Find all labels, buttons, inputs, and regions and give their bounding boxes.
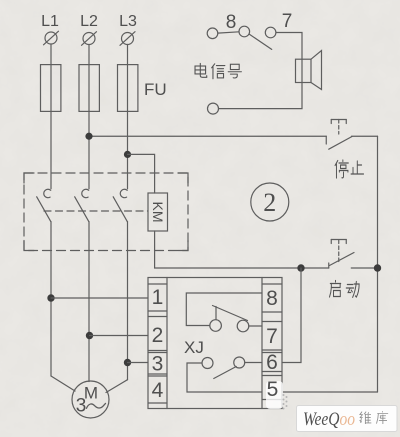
- start button actuator: [331, 240, 346, 263]
- wire L3 phase: [127, 45, 129, 189]
- svg-text:L2: L2: [80, 13, 98, 30]
- relay right column divider: [261, 278, 263, 409]
- svg-text:6: 6: [266, 351, 278, 374]
- node start left: [297, 264, 304, 271]
- speaker: [296, 51, 322, 90]
- wire contact to terminal 7: [249, 325, 262, 327]
- wire L3 to motor: [106, 380, 128, 393]
- XJ contact 8-7 blade: [213, 306, 248, 321]
- svg-text:XJ: XJ: [184, 338, 204, 357]
- terminal 2 cell: [148, 317, 167, 351]
- terminal 3 cell: [148, 353, 167, 376]
- label FU: [144, 80, 167, 99]
- watermark WeeQoo box: [297, 406, 398, 432]
- svg-text:7: 7: [282, 11, 293, 32]
- motor M: [72, 381, 109, 418]
- contact circle 7: [265, 27, 276, 38]
- XJ contact 8-7 fixed circle: [237, 320, 249, 332]
- mechanical linkage: [44, 210, 148, 212]
- svg-text:L1: L1: [41, 13, 59, 30]
- wire contact to terminal 6: [245, 362, 262, 364]
- svg-text:KM: KM: [150, 202, 166, 223]
- wire L1 to motor: [51, 376, 75, 391]
- svg-text:2: 2: [263, 188, 276, 217]
- node L2 to terminal 2: [86, 332, 93, 339]
- node start right: [374, 264, 381, 271]
- label XJ: [184, 338, 204, 357]
- stop button actuator: [331, 120, 346, 135]
- node L2 junction: [85, 133, 92, 140]
- terminal circle signal left bottom: [208, 103, 219, 114]
- svg-text:L3: L3: [119, 13, 137, 30]
- svg-text:8: 8: [266, 287, 278, 310]
- watermark 维库: [360, 411, 389, 424]
- wire L1 to terminal 1: [51, 297, 148, 299]
- svg-text:5: 5: [267, 378, 279, 401]
- terminal 4 cell: [148, 376, 167, 403]
- label circuit number 2: [251, 183, 289, 221]
- contactor dashed box: [24, 173, 188, 251]
- XJ contact 5-6 right circle: [234, 357, 245, 368]
- wire KM coil to start: [155, 231, 301, 268]
- wire L3 to terminal 3: [128, 362, 149, 364]
- wire terminal 5 to contact: [187, 363, 262, 392]
- wire terminal 5 to bus: [282, 391, 378, 393]
- switch blade 8-7: [249, 34, 272, 49]
- label KM: [150, 202, 166, 223]
- terminal L1 circle: [44, 31, 59, 45]
- wire L3 to KM coil: [128, 154, 155, 193]
- terminal L2 circle: [82, 32, 97, 46]
- wire terminal 8 to contact: [186, 293, 262, 326]
- terminal 7 cell: [262, 322, 282, 351]
- label L1: [41, 13, 59, 30]
- svg-text:1: 1: [152, 286, 164, 309]
- relay XJ outer box: [148, 278, 282, 409]
- terminal L3 circle: [120, 32, 135, 46]
- wire L2 to terminal 2: [90, 335, 149, 337]
- wire 7 to speaker: [276, 33, 302, 60]
- node L3 to terminal 3: [124, 359, 131, 366]
- contact circle 8: [239, 26, 250, 37]
- relay left column divider: [166, 278, 168, 409]
- terminal 1 cell: [148, 284, 167, 311]
- KM main contact 2: [75, 189, 89, 221]
- svg-text:3: 3: [76, 396, 87, 417]
- wire right bus: [377, 136, 379, 392]
- wire L2 lower: [88, 222, 90, 382]
- label L3: [119, 13, 137, 30]
- svg-text:FU: FU: [144, 80, 167, 99]
- node L3 junction KM coil: [124, 151, 131, 158]
- terminal 8 cell: [262, 284, 282, 312]
- wire L2 to stop button: [89, 135, 326, 137]
- label 停止: [335, 160, 363, 178]
- XJ contact 5-6 blade: [214, 367, 237, 379]
- svg-text:7: 7: [266, 325, 278, 348]
- terminal circle signal left top: [207, 28, 218, 39]
- label 7: [282, 11, 293, 32]
- XJ contact 8-7 pivot circle: [210, 320, 222, 332]
- KM main contact 3: [113, 189, 127, 221]
- fuse FU3: [118, 65, 138, 112]
- label 8: [226, 12, 237, 33]
- fuse FU2: [79, 65, 99, 112]
- node L1 to terminal 1: [47, 294, 54, 301]
- watermark over terminal 5: [266, 378, 288, 410]
- svg-text:4: 4: [152, 379, 164, 402]
- svg-text:2: 2: [152, 324, 164, 347]
- svg-text:3: 3: [152, 353, 164, 376]
- XJ contact 5-6 left circle: [202, 358, 213, 369]
- stop button contact: [326, 136, 377, 149]
- wire L1 lower: [50, 222, 52, 376]
- label 启动: [330, 281, 360, 298]
- wire L3 lower: [127, 222, 129, 380]
- start button contact: [301, 253, 378, 269]
- wire signal top: [218, 32, 239, 33]
- terminal 5 cell: [262, 376, 282, 402]
- label L2: [80, 13, 98, 30]
- label 电信号: [195, 63, 241, 78]
- KM main contact 1: [37, 189, 51, 221]
- KM coil: [148, 193, 168, 231]
- svg-text:WeeQoo: WeeQoo: [303, 409, 355, 430]
- fuse FU1: [41, 65, 61, 112]
- wire L1 phase: [50, 44, 52, 189]
- terminal 6 cell: [262, 351, 282, 374]
- svg-text:8: 8: [226, 12, 237, 33]
- wire junction to terminal 6: [282, 268, 301, 363]
- wire L2 phase: [88, 45, 90, 189]
- wire speaker to signal bottom: [219, 83, 303, 109]
